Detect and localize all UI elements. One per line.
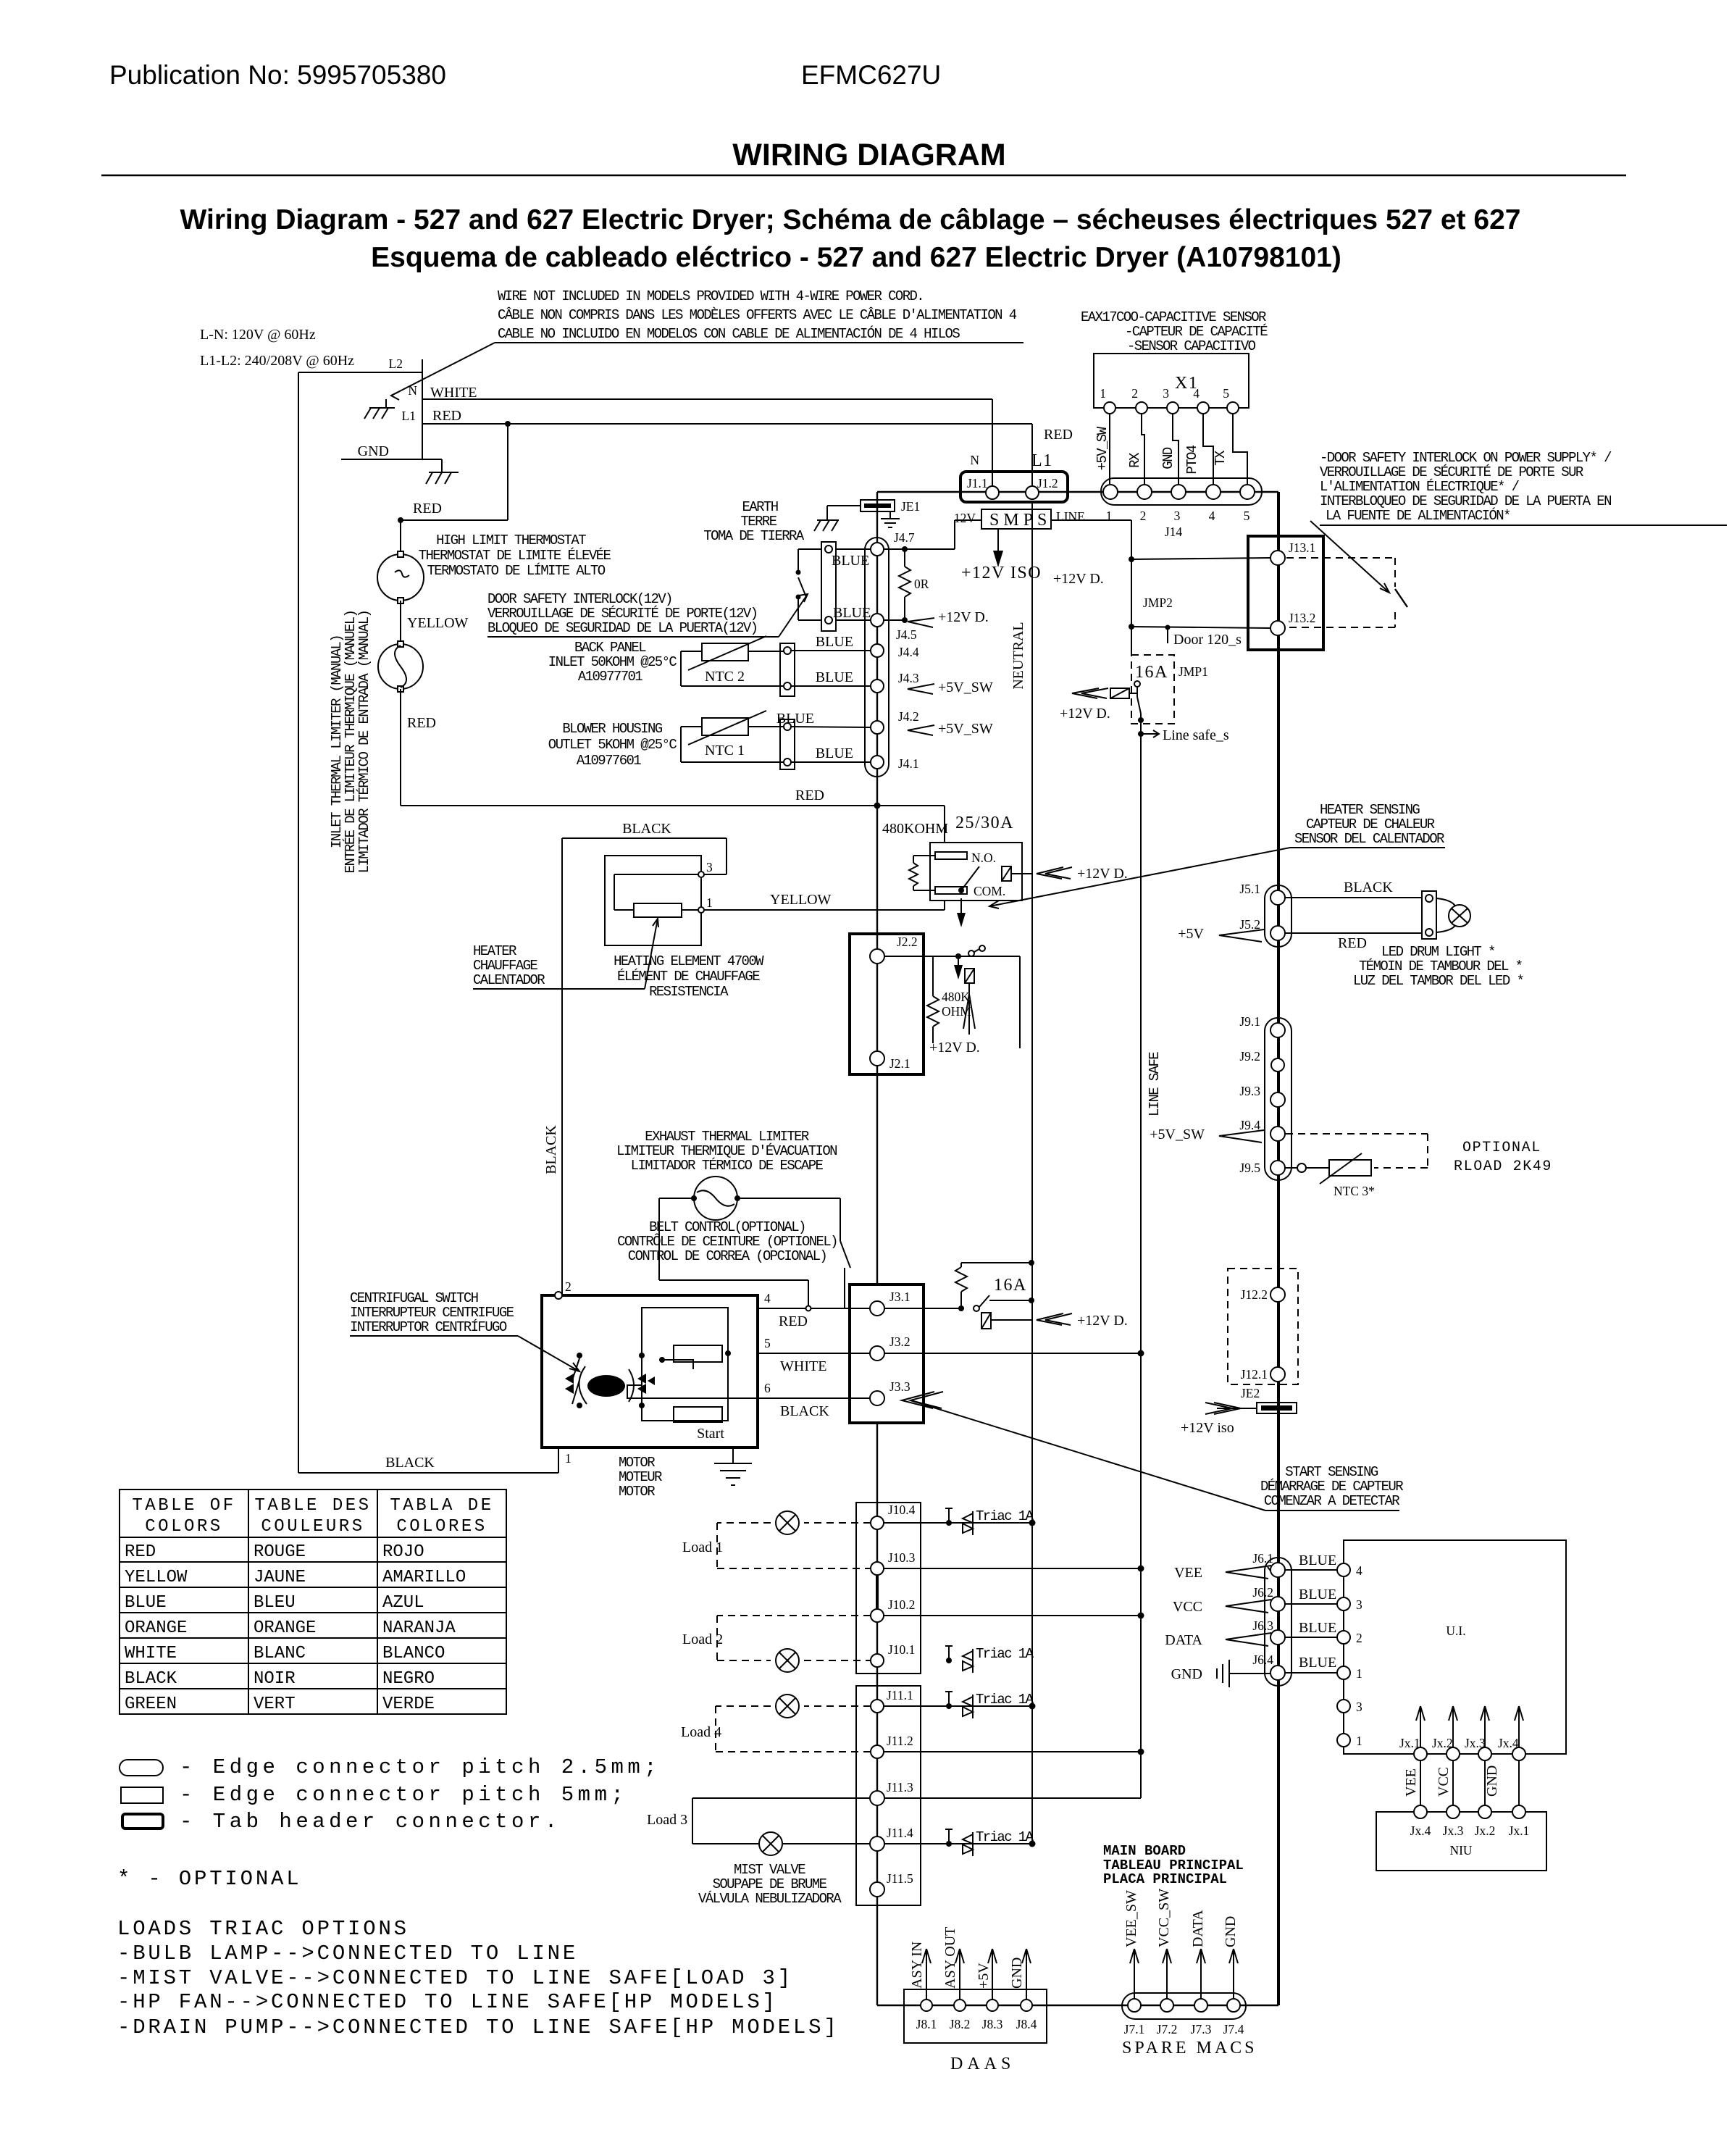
svg-text:TOMA DE TIERRA: TOMA DE TIERRA <box>703 528 804 544</box>
svg-text:CENTRIFUGAL SWITCH: CENTRIFUGAL SWITCH <box>350 1290 478 1306</box>
svg-text:RED: RED <box>1044 427 1073 443</box>
svg-text:J4.1: J4.1 <box>898 756 919 771</box>
svg-text:+12V D.: +12V D. <box>929 1040 980 1056</box>
svg-text:GREEN: GREEN <box>125 1695 177 1714</box>
svg-text:BLANC: BLANC <box>254 1644 306 1663</box>
svg-text:1: 1 <box>1356 1666 1362 1681</box>
svg-text:J13.1: J13.1 <box>1289 540 1315 555</box>
svg-text:Jx.1: Jx.1 <box>1399 1736 1420 1750</box>
svg-text:- Edge connector pitch 2.5mm;: - Edge connector pitch 2.5mm; <box>180 1755 661 1779</box>
svg-text:AZUL: AZUL <box>382 1593 424 1613</box>
svg-text:OUTLET 5KOHM @25°C: OUTLET 5KOHM @25°C <box>548 737 677 753</box>
svg-text:5: 5 <box>764 1336 771 1350</box>
svg-text:WIRING DIAGRAM: WIRING DIAGRAM <box>732 138 1005 172</box>
svg-text:1: 1 <box>706 895 713 910</box>
svg-text:BLUE: BLUE <box>832 553 869 569</box>
svg-text:J10.2: J10.2 <box>888 1597 915 1612</box>
svg-text:J4.2: J4.2 <box>898 709 919 724</box>
svg-text:+12V D.: +12V D. <box>1053 571 1104 587</box>
svg-text:MAIN BOARD: MAIN BOARD <box>1103 1843 1186 1859</box>
svg-text:-SENSOR CAPACITIVO: -SENSOR CAPACITIVO <box>1127 338 1256 354</box>
svg-text:NOIR: NOIR <box>254 1669 296 1689</box>
svg-text:RX: RX <box>1127 452 1143 468</box>
svg-text:BLUE: BLUE <box>816 634 853 650</box>
svg-text:J11.4: J11.4 <box>887 1826 913 1840</box>
svg-text:J4.5: J4.5 <box>896 627 917 642</box>
svg-text:YELLOW: YELLOW <box>125 1568 188 1587</box>
svg-text:J9.3: J9.3 <box>1239 1084 1260 1098</box>
svg-text:LINE SAFE: LINE SAFE <box>1147 1052 1163 1116</box>
svg-text:J4.4: J4.4 <box>898 645 919 659</box>
svg-text:J7.1: J7.1 <box>1124 2022 1145 2036</box>
svg-text:AMARILLO: AMARILLO <box>382 1568 466 1587</box>
svg-text:LOADS TRIAC OPTIONS: LOADS TRIAC OPTIONS <box>117 1917 409 1941</box>
svg-text:J12.1: J12.1 <box>1241 1367 1268 1382</box>
svg-text:J4.3: J4.3 <box>898 671 919 685</box>
svg-text:VEE: VEE <box>1403 1768 1419 1797</box>
svg-text:+12V D.: +12V D. <box>938 609 989 625</box>
svg-text:J6.2: J6.2 <box>1252 1585 1273 1600</box>
svg-text:NEUTRAL: NEUTRAL <box>1010 622 1026 689</box>
svg-text:HEATING ELEMENT 4700W: HEATING ELEMENT 4700W <box>614 953 764 969</box>
svg-text:J9.4: J9.4 <box>1239 1118 1260 1132</box>
svg-text:+5V_SW: +5V_SW <box>1150 1127 1205 1142</box>
svg-text:BLOWER HOUSING: BLOWER HOUSING <box>562 721 662 737</box>
svg-text:- Edge connector pitch 5mm;: - Edge connector pitch 5mm; <box>180 1783 627 1807</box>
svg-text:Jx.1: Jx.1 <box>1509 1823 1530 1838</box>
svg-text:BLOQUEO DE SEGURIDAD DE LA PUE: BLOQUEO DE SEGURIDAD DE LA PUERTA(12V) <box>487 620 757 636</box>
svg-text:+5V: +5V <box>1178 926 1204 942</box>
svg-text:TERRE: TERRE <box>740 514 776 530</box>
svg-text:J5.2: J5.2 <box>1239 917 1260 932</box>
svg-text:LIMITADOR TÉRMICO DE ENTRADA (: LIMITADOR TÉRMICO DE ENTRADA (MANUAL) <box>356 611 372 874</box>
svg-text:CAPTEUR DE CHALEUR: CAPTEUR DE CHALEUR <box>1306 816 1435 832</box>
svg-text:CABLE NO INCLUIDO EN MODELOS C: CABLE NO INCLUIDO EN MODELOS CON CABLE D… <box>498 326 960 342</box>
svg-text:VCC: VCC <box>1436 1767 1452 1797</box>
svg-text:GND: GND <box>1160 447 1176 469</box>
svg-text:J6.1: J6.1 <box>1252 1551 1273 1566</box>
svg-text:COLORS: COLORS <box>145 1517 222 1537</box>
svg-text:RED: RED <box>125 1542 156 1562</box>
svg-text:WHITE: WHITE <box>125 1644 177 1663</box>
svg-text:J7.4: J7.4 <box>1223 2022 1244 2036</box>
svg-text:CHAUFFAGE: CHAUFFAGE <box>473 958 537 974</box>
svg-text:L'ALIMENTATION ÉLECTRIQUE* /: L'ALIMENTATION ÉLECTRIQUE* / <box>1320 479 1520 495</box>
svg-text:LED DRUM LIGHT *: LED DRUM LIGHT * <box>1381 944 1495 960</box>
svg-text:DAAS: DAAS <box>950 2055 1015 2073</box>
svg-text:L-N: 120V @ 60Hz: L-N: 120V @ 60Hz <box>200 327 316 343</box>
svg-text:VEE: VEE <box>1174 1565 1202 1581</box>
svg-text:TÉMOIN DE TAMBOUR DEL *: TÉMOIN DE TAMBOUR DEL * <box>1359 958 1523 974</box>
svg-text:J5.1: J5.1 <box>1239 882 1260 896</box>
svg-text:BLUE: BLUE <box>1299 1620 1336 1636</box>
svg-text:J8.1: J8.1 <box>916 2017 937 2031</box>
svg-text:INLET 50KOHM @25°C: INLET 50KOHM @25°C <box>548 654 677 670</box>
svg-text:4: 4 <box>1209 509 1215 523</box>
svg-text:J2.2: J2.2 <box>897 935 918 949</box>
svg-text:SOUPAPE DE BRUME: SOUPAPE DE BRUME <box>713 1876 827 1892</box>
svg-text:U.I.: U.I. <box>1446 1624 1465 1638</box>
svg-text:YELLOW: YELLOW <box>770 892 832 908</box>
svg-text:+12V D.: +12V D. <box>1077 866 1128 882</box>
svg-text:BLACK: BLACK <box>543 1125 559 1174</box>
svg-text:HEATER: HEATER <box>473 943 516 959</box>
svg-text:HIGH LIMIT THERMOSTAT: HIGH LIMIT THERMOSTAT <box>436 532 586 548</box>
svg-text:2: 2 <box>1140 509 1147 523</box>
svg-text:ORANGE: ORANGE <box>125 1618 187 1638</box>
svg-text:CÂBLE NON COMPRIS DANS LES MOD: CÂBLE NON COMPRIS DANS LES MODÈLES OFFER… <box>498 307 1017 323</box>
svg-text:TABLE DES: TABLE DES <box>254 1496 371 1516</box>
svg-text:DOOR SAFETY INTERLOCK(12V): DOOR SAFETY INTERLOCK(12V) <box>487 591 672 607</box>
svg-text:1: 1 <box>1356 1734 1362 1748</box>
svg-text:ROUGE: ROUGE <box>254 1542 306 1562</box>
svg-text:JMP1: JMP1 <box>1179 664 1208 679</box>
svg-text:NEGRO: NEGRO <box>382 1669 435 1689</box>
svg-text:HEATER SENSING: HEATER SENSING <box>1320 802 1420 818</box>
svg-text:ASY OUT: ASY OUT <box>942 1927 958 1989</box>
svg-text:JAUNE: JAUNE <box>254 1568 306 1587</box>
svg-text:J11.3: J11.3 <box>887 1780 913 1794</box>
svg-text:Publication No: 5995705380: Publication No: 5995705380 <box>109 60 446 90</box>
svg-text:J7.3: J7.3 <box>1191 2022 1212 2036</box>
svg-text:VERT: VERT <box>254 1695 296 1714</box>
svg-text:VERROUILLAGE DE SÉCURITÉ DE PO: VERROUILLAGE DE SÉCURITÉ DE PORTE(12V) <box>487 606 757 622</box>
svg-text:A10977601: A10977601 <box>577 753 641 769</box>
svg-text:3: 3 <box>1174 509 1181 523</box>
svg-text:* - OPTIONAL: * - OPTIONAL <box>117 1867 301 1891</box>
svg-text:3: 3 <box>1356 1597 1362 1612</box>
svg-text:16A: 16A <box>1135 663 1168 682</box>
svg-text:J6.3: J6.3 <box>1252 1618 1273 1633</box>
svg-text:6: 6 <box>764 1381 771 1395</box>
svg-text:WHITE: WHITE <box>780 1358 826 1374</box>
svg-text:RED: RED <box>432 408 461 424</box>
svg-text:SENSOR DEL CALENTADOR: SENSOR DEL CALENTADOR <box>1294 831 1444 847</box>
svg-text:WIRE NOT INCLUDED IN MODELS PR: WIRE NOT INCLUDED IN MODELS PROVIDED WIT… <box>498 288 924 304</box>
svg-text:VÁLVULA NEBULIZADORA: VÁLVULA NEBULIZADORA <box>698 1891 842 1907</box>
svg-text:VERDE: VERDE <box>382 1695 435 1714</box>
svg-text:Jx.4: Jx.4 <box>1498 1736 1519 1750</box>
svg-text:J7.2: J7.2 <box>1157 2022 1178 2036</box>
svg-text:LUZ DEL TAMBOR DEL LED *: LUZ DEL TAMBOR DEL LED * <box>1353 973 1523 989</box>
svg-text:+12V D.: +12V D. <box>1077 1313 1128 1329</box>
svg-text:Door 120_s: Door 120_s <box>1173 632 1242 648</box>
svg-text:BLUE: BLUE <box>776 711 814 727</box>
svg-text:A10977701: A10977701 <box>578 669 642 685</box>
svg-text:Jx.2: Jx.2 <box>1475 1823 1496 1838</box>
svg-text:J12.2: J12.2 <box>1241 1287 1268 1302</box>
svg-text:3: 3 <box>1356 1700 1362 1714</box>
svg-text:J3.1: J3.1 <box>889 1290 910 1304</box>
svg-text:Esquema de cableado eléctrico: Esquema de cableado eléctrico - 527 and … <box>371 242 1341 273</box>
svg-text:-BULB LAMP-->CONNECTED TO LINE: -BULB LAMP-->CONNECTED TO LINE <box>117 1942 578 1965</box>
svg-text:BLUE: BLUE <box>125 1593 167 1613</box>
svg-text:JE2: JE2 <box>1241 1386 1260 1400</box>
svg-text:BLACK: BLACK <box>1344 879 1393 895</box>
svg-text:-DRAIN PUMP-->CONNECTED TO LIN: -DRAIN PUMP-->CONNECTED TO LINE SAFE[HP … <box>117 2015 840 2039</box>
svg-text:BLUE: BLUE <box>816 745 853 761</box>
svg-text:3: 3 <box>706 860 713 874</box>
svg-text:JE1: JE1 <box>901 499 920 514</box>
svg-text:LIMITEUR THERMIQUE D'ÉVACUATIO: LIMITEUR THERMIQUE D'ÉVACUATION <box>616 1143 837 1159</box>
svg-text:J4.7: J4.7 <box>894 530 915 545</box>
svg-text:INTERRUPTOR CENTRÍFUGO: INTERRUPTOR CENTRÍFUGO <box>350 1319 507 1335</box>
svg-text:VEE_SW: VEE_SW <box>1123 1890 1139 1947</box>
svg-text:N.O.: N.O. <box>971 851 996 865</box>
svg-text:2: 2 <box>1356 1631 1362 1645</box>
svg-text:+5V_SW: +5V_SW <box>938 680 993 695</box>
svg-text:J3.2: J3.2 <box>889 1334 910 1349</box>
svg-text:BELT CONTROL(OPTIONAL): BELT CONTROL(OPTIONAL) <box>649 1219 805 1235</box>
svg-text:1: 1 <box>565 1451 572 1466</box>
svg-text:Jx.4: Jx.4 <box>1410 1823 1431 1838</box>
svg-text:NTC 1: NTC 1 <box>705 743 745 759</box>
svg-text:J8.2: J8.2 <box>950 2017 971 2031</box>
svg-text:ASY IN: ASY IN <box>909 1942 925 1989</box>
svg-text:OPTIONAL: OPTIONAL <box>1462 1140 1541 1156</box>
svg-text:COM.: COM. <box>974 884 1005 898</box>
svg-text:25/30A: 25/30A <box>955 814 1014 832</box>
svg-text:GND: GND <box>1484 1766 1500 1797</box>
svg-text:ROJO: ROJO <box>382 1542 424 1562</box>
svg-text:L1-L2: 240/208V @ 60Hz: L1-L2: 240/208V @ 60Hz <box>200 353 354 369</box>
svg-text:ORANGE: ORANGE <box>254 1618 316 1638</box>
svg-text:MOTEUR: MOTEUR <box>619 1469 662 1485</box>
svg-text:BLUE: BLUE <box>833 605 871 621</box>
svg-text:480K: 480K <box>942 990 970 1004</box>
svg-text:16A: 16A <box>994 1276 1027 1295</box>
svg-text:MOTOR: MOTOR <box>619 1455 655 1471</box>
svg-text:BLACK: BLACK <box>780 1403 829 1419</box>
svg-text:12V: 12V <box>954 511 976 525</box>
svg-text:L1: L1 <box>1031 451 1053 470</box>
svg-text:+12V iso: +12V iso <box>1181 1420 1234 1436</box>
svg-text:L2: L2 <box>389 356 403 371</box>
svg-text:LIMITADOR TÉRMICO DE ESCAPE: LIMITADOR TÉRMICO DE ESCAPE <box>631 1158 824 1174</box>
svg-text:RED: RED <box>795 787 824 803</box>
svg-text:PTO4: PTO4 <box>1184 445 1200 474</box>
svg-text:Triac 1A: Triac 1A <box>976 1508 1034 1524</box>
svg-text:TERMOSTATO DE LÍMITE ALTO: TERMOSTATO DE LÍMITE ALTO <box>427 563 605 579</box>
svg-text:LINE: LINE <box>1056 509 1085 524</box>
svg-text:BLACK: BLACK <box>622 821 671 837</box>
svg-text:J8.4: J8.4 <box>1016 2017 1037 2031</box>
svg-text:Jx.3: Jx.3 <box>1443 1823 1464 1838</box>
svg-text:L1: L1 <box>402 409 416 423</box>
svg-text:J9.2: J9.2 <box>1239 1049 1260 1064</box>
svg-text:NTC 3*: NTC 3* <box>1334 1184 1375 1198</box>
svg-text:INTERRUPTEUR CENTRIFUGE: INTERRUPTEUR CENTRIFUGE <box>350 1305 514 1321</box>
svg-text:4: 4 <box>1193 386 1200 401</box>
svg-text:1: 1 <box>1100 386 1106 401</box>
svg-text:480KOHM: 480KOHM <box>882 821 948 837</box>
svg-text:CALENTADOR: CALENTADOR <box>473 972 545 988</box>
svg-text:DATA: DATA <box>1190 1910 1206 1947</box>
svg-text:J11.2: J11.2 <box>887 1734 913 1748</box>
svg-text:BLUE: BLUE <box>816 669 853 685</box>
svg-text:4: 4 <box>1356 1563 1362 1578</box>
svg-text:BLUE: BLUE <box>1299 1587 1336 1603</box>
svg-text:NIU: NIU <box>1449 1843 1472 1858</box>
svg-text:VCC: VCC <box>1173 1599 1202 1615</box>
svg-text:0R: 0R <box>914 577 929 591</box>
svg-text:BLEU: BLEU <box>254 1593 296 1613</box>
svg-text:DÉMARRAGE DE CAPTEUR: DÉMARRAGE DE CAPTEUR <box>1260 1479 1403 1495</box>
svg-text:+12V ISO: +12V ISO <box>961 564 1042 582</box>
svg-text:RED: RED <box>407 715 436 731</box>
svg-text:J6.4: J6.4 <box>1252 1652 1273 1667</box>
svg-text:BLANCO: BLANCO <box>382 1644 445 1663</box>
svg-text:BLACK: BLACK <box>125 1669 177 1689</box>
svg-text:TX: TX <box>1213 450 1228 466</box>
svg-text:PLACA PRINCIPAL: PLACA PRINCIPAL <box>1103 1871 1227 1887</box>
svg-text:VCC_SW: VCC_SW <box>1156 1889 1172 1947</box>
svg-text:+5V: +5V <box>976 1963 992 1989</box>
svg-text:JMP2: JMP2 <box>1143 596 1173 610</box>
svg-text:WHITE: WHITE <box>430 385 477 401</box>
svg-text:Wiring Diagram - 527 and 627 E: Wiring Diagram - 527 and 627 Electric Dr… <box>180 204 1521 235</box>
svg-text:5: 5 <box>1223 386 1229 401</box>
svg-text:GND: GND <box>1009 1957 1025 1989</box>
svg-text:J10.4: J10.4 <box>888 1503 916 1517</box>
svg-text:-DOOR SAFETY INTERLOCK ON POWE: -DOOR SAFETY INTERLOCK ON POWER SUPPLY* … <box>1320 450 1612 466</box>
svg-text:J3.3: J3.3 <box>889 1379 910 1394</box>
svg-text:COULEURS: COULEURS <box>261 1517 364 1537</box>
svg-text:RED: RED <box>1338 935 1367 951</box>
svg-text:3: 3 <box>1163 386 1169 401</box>
svg-text:GND: GND <box>1171 1666 1202 1682</box>
svg-text:N: N <box>970 453 979 467</box>
svg-text:J10.3: J10.3 <box>888 1550 916 1565</box>
svg-text:N: N <box>408 383 417 398</box>
svg-text:RED: RED <box>779 1313 808 1329</box>
svg-text:J11.1: J11.1 <box>887 1688 913 1702</box>
svg-text:J9.1: J9.1 <box>1239 1014 1260 1029</box>
svg-text:J1.1: J1.1 <box>967 476 988 490</box>
svg-text:+5V_SW: +5V_SW <box>938 721 993 737</box>
svg-text:BLUE: BLUE <box>1299 1655 1336 1671</box>
svg-text:Jx.3: Jx.3 <box>1465 1736 1486 1750</box>
svg-text:LA FUENTE DE ALIMENTACIÓN*: LA FUENTE DE ALIMENTACIÓN* <box>1326 508 1510 524</box>
svg-text:BLUE: BLUE <box>1299 1553 1336 1568</box>
svg-text:SMPS: SMPS <box>989 511 1051 530</box>
svg-text:4: 4 <box>764 1291 771 1305</box>
svg-text:-CAPTEUR DE CAPACITÉ: -CAPTEUR DE CAPACITÉ <box>1125 324 1268 340</box>
svg-text:Load 3: Load 3 <box>647 1812 687 1828</box>
svg-text:TABLA DE: TABLA DE <box>390 1496 493 1516</box>
svg-text:NARANJA: NARANJA <box>382 1618 456 1638</box>
svg-text:J10.1: J10.1 <box>888 1642 915 1657</box>
svg-text:NTC 2: NTC 2 <box>705 669 745 685</box>
svg-text:J14: J14 <box>1165 525 1183 539</box>
svg-text:Start: Start <box>697 1426 724 1442</box>
svg-text:BLACK: BLACK <box>385 1455 435 1471</box>
svg-text:INTERBLOQUEO DE SEGURIDAD DE L: INTERBLOQUEO DE SEGURIDAD DE LA PUERTA E… <box>1320 493 1611 509</box>
svg-text:RED: RED <box>413 501 442 517</box>
svg-text:THERMOSTAT DE LIMITE ÉLEVÉE: THERMOSTAT DE LIMITE ÉLEVÉE <box>419 548 611 564</box>
svg-text:GND: GND <box>1223 1916 1239 1947</box>
svg-text:RESISTENCIA: RESISTENCIA <box>649 984 729 1000</box>
svg-text:EFMC627U: EFMC627U <box>801 60 941 90</box>
svg-text:J2.1: J2.1 <box>889 1056 910 1071</box>
svg-text:+12V D.: +12V D. <box>1060 706 1110 722</box>
svg-text:Jx.2: Jx.2 <box>1432 1736 1453 1750</box>
svg-text:START SENSING: START SENSING <box>1285 1464 1378 1480</box>
svg-text:J13.2: J13.2 <box>1289 611 1315 625</box>
svg-text:2: 2 <box>1131 386 1138 401</box>
svg-text:VERROUILLAGE DE SÉCURITÉ DE PO: VERROUILLAGE DE SÉCURITÉ DE PORTE SUR <box>1320 464 1583 480</box>
svg-text:BACK PANEL: BACK PANEL <box>574 640 646 656</box>
svg-text:J9.5: J9.5 <box>1239 1161 1260 1175</box>
svg-text:-HP FAN-->CONNECTED TO LINE SA: -HP FAN-->CONNECTED TO LINE SAFE[HP MODE… <box>117 1990 778 2014</box>
svg-text:CONTRÔLE DE CEINTURE (OPTIONEL: CONTRÔLE DE CEINTURE (OPTIONEL) <box>617 1234 837 1250</box>
svg-text:J11.5: J11.5 <box>887 1871 913 1886</box>
svg-text:+5V_SW: +5V_SW <box>1094 426 1110 470</box>
svg-text:TABLE OF: TABLE OF <box>132 1496 235 1516</box>
svg-text:J8.3: J8.3 <box>982 2017 1003 2031</box>
svg-text:EAX17COO-CAPACITIVE SENSOR: EAX17COO-CAPACITIVE SENSOR <box>1081 309 1266 325</box>
svg-text:EARTH: EARTH <box>742 499 777 515</box>
svg-text:J1.2: J1.2 <box>1037 476 1058 490</box>
svg-text:GND: GND <box>358 443 389 459</box>
svg-text:DATA: DATA <box>1165 1632 1202 1648</box>
svg-text:COLORES: COLORES <box>396 1517 487 1537</box>
svg-text:5: 5 <box>1244 509 1250 523</box>
svg-text:- Tab header connector.: - Tab header connector. <box>180 1810 561 1834</box>
svg-text:RLOAD 2K49: RLOAD 2K49 <box>1454 1158 1552 1175</box>
svg-text:2: 2 <box>565 1279 572 1294</box>
svg-text:CONTROL DE CORREA (OPCIONAL): CONTROL DE CORREA (OPCIONAL) <box>628 1248 826 1264</box>
svg-text:MOTOR: MOTOR <box>619 1484 655 1500</box>
svg-text:-MIST VALVE-->CONNECTED TO LIN: -MIST VALVE-->CONNECTED TO LINE SAFE[LOA… <box>117 1966 793 1990</box>
svg-text:EXHAUST THERMAL LIMITER: EXHAUST THERMAL LIMITER <box>645 1129 809 1145</box>
svg-text:COMENZAR A DETECTAR: COMENZAR A DETECTAR <box>1264 1493 1399 1509</box>
svg-text:MIST VALVE: MIST VALVE <box>734 1862 805 1878</box>
svg-text:Line safe_s: Line safe_s <box>1163 727 1229 743</box>
svg-text:YELLOW: YELLOW <box>407 615 469 631</box>
svg-text:ÉLÉMENT DE CHAUFFAGE: ÉLÉMENT DE CHAUFFAGE <box>617 969 760 985</box>
svg-text:SPARE MACS: SPARE MACS <box>1122 2039 1257 2057</box>
